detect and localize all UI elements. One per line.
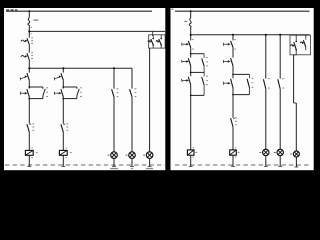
interlock contact K2 (NC) — [27, 123, 34, 131]
indicator lamp H2 — [126, 152, 136, 159]
start pushbutton S9 (NO) — [223, 58, 233, 66]
wire rung A to coil — [190, 85, 194, 150]
right neutral rail (dashed) — [175, 164, 311, 166]
lamp H2 drop wire — [131, 68, 133, 88]
holding contact K2 branch — [232, 74, 253, 96]
wire coil K2 to neutral — [61, 155, 65, 166]
right box contact 2 — [300, 35, 306, 50]
wire contact to lamp H2 right — [279, 89, 281, 149]
lamp H1 right drop wire — [265, 34, 267, 79]
wire S5 to group — [190, 47, 192, 57]
wire overload to branch rail — [28, 60, 30, 73]
indicator lamp H2 right — [274, 149, 284, 155]
stop pushbutton S1 (NC) — [20, 73, 29, 80]
box contact 2 (F2 trip signal) — [156, 35, 162, 48]
wire S2 to K2 interlock — [28, 97, 30, 124]
right schematic panel background — [171, 8, 314, 170]
auxiliary contact K2 for H2 — [130, 88, 137, 97]
wire mid joint rung A — [190, 66, 204, 76]
indicator lamp H1 — [108, 152, 118, 159]
overload signal contact box right — [290, 35, 311, 55]
wire lamp H2 right to neutral — [278, 156, 282, 167]
contactor coil K1 — [25, 150, 37, 158]
wire lamp H3 right to neutral — [295, 157, 299, 167]
start pushbutton S7 (NO) — [182, 77, 191, 85]
left top supply rail — [6, 10, 152, 12]
wire contact to lamp H1 right — [265, 89, 267, 149]
start pushbutton S2 (NO) — [20, 89, 29, 97]
circuit breaker F1 — [184, 18, 191, 27]
auxiliary contact K1 for H1 — [112, 88, 119, 97]
start pushbutton S10 (NO) in loop — [223, 79, 233, 88]
auxiliary contact for H2 right — [278, 78, 284, 89]
lamp H2 right drop wire — [279, 34, 281, 79]
lamp H1 drop wire — [113, 67, 115, 88]
wire coil K1 to neutral — [27, 155, 31, 166]
wire to coil K2 right — [233, 127, 236, 150]
right control rail — [191, 34, 310, 36]
holding contact K1 branch lower — [191, 72, 208, 95]
wire F1 to S5 — [190, 27, 192, 40]
wire right box to lamp H3 — [294, 52, 297, 151]
branch junction K2 rung — [62, 67, 64, 72]
lamp H2 label — [131, 168, 133, 169]
start pushbutton S4 (NO) — [54, 89, 63, 97]
wire S3 to S4 — [62, 80, 64, 88]
wire to coil K2 — [63, 132, 67, 151]
wire lamp H1 to neutral — [112, 159, 116, 167]
interlock contact K1 (NC) rung B — [231, 117, 237, 127]
auxiliary contact for H1 right — [263, 78, 269, 89]
contactor coil K1 right — [187, 150, 197, 158]
wire lamp H2 to neutral — [130, 159, 134, 167]
holding contact K1 branch upper — [191, 54, 208, 73]
wire S4 to K1 interlock — [62, 97, 64, 124]
left panel phase labels L1 L2 L3 — [6, 9, 17, 11]
wire coil K2 right to neutral — [231, 155, 235, 166]
overload relay F2 element 1 — [21, 37, 33, 44]
right top supply rail — [175, 10, 310, 12]
wire Q1 to F2 — [28, 26, 32, 37]
wire F1 drop — [190, 10, 192, 18]
wire to coil K1 — [29, 132, 33, 151]
wire Q1 drop — [28, 10, 30, 17]
wire between overload elements — [28, 45, 30, 53]
wire coil K1 right to neutral — [189, 155, 193, 166]
wire lamp H1 right to neutral — [264, 156, 268, 167]
contactor coil K2 — [59, 150, 71, 158]
black letterbox background — [0, 0, 320, 180]
overload relay F2 element 2 — [21, 52, 33, 60]
disconnect switch Q1 — [28, 18, 38, 27]
right box contact 1 — [291, 35, 297, 52]
holding contact K2 parallel branch — [62, 86, 81, 99]
box contact 1 (F2 trip signal) — [148, 35, 154, 48]
left schematic panel background — [4, 8, 165, 170]
lamp H1 label — [110, 168, 118, 169]
wire rung B drop — [232, 34, 234, 41]
indicator lamp H1 right — [259, 149, 269, 155]
wire contact to lamp H2 — [131, 97, 133, 152]
stop pushbutton S3 (NC) — [54, 73, 63, 80]
overload signal contact box F2 — [149, 35, 165, 48]
start pushbutton S6 (NO) — [182, 58, 191, 66]
wire S8 to S9 — [232, 47, 234, 57]
stop pushbutton S8 (NC) — [223, 39, 236, 49]
lamp H3 label — [146, 168, 153, 169]
holding contact K1 parallel branch — [28, 86, 48, 99]
stop pushbutton S5 (NC) — [182, 39, 194, 49]
wire S9 through loop — [232, 66, 234, 118]
contactor coil K2 right — [230, 150, 240, 158]
indicator lamp H3 right — [290, 151, 299, 157]
wire box to lamp H3 — [149, 48, 151, 152]
left neutral rail (dashed) — [5, 164, 165, 166]
wire rail to box F2 — [152, 31, 154, 36]
interlock contact K1 (NC) — [61, 123, 68, 131]
indicator lamp H3 — [143, 152, 153, 159]
left branch rail — [29, 67, 132, 69]
right panel header text — [171, 8, 173, 10]
wire contact to lamp H1 — [113, 97, 115, 152]
left control rail — [29, 30, 165, 32]
wire lamp H3 to neutral — [148, 159, 152, 167]
wire S1 to S2 — [28, 80, 30, 88]
